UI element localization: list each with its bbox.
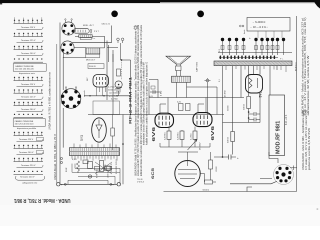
- tube A pin stubs: [97, 87, 106, 96]
- wire right of band: [112, 54, 114, 115]
- voltage selector row 11: [14, 158, 44, 168]
- wire aux rail x56.8: [56, 44, 58, 184]
- svg-text:0,1 MΩ: 0,1 MΩ: [191, 133, 193, 140]
- top rail of tubes: [88, 114, 224, 116]
- ladder component b: [107, 166, 112, 170]
- junction dots right: [248, 111, 250, 113]
- voltage selector legend box 2: [13, 119, 45, 131]
- svg-text:Tensione 110 V: Tensione 110 V: [21, 27, 36, 29]
- svg-text:5Y3: 5Y3: [259, 91, 263, 97]
- svg-text:UNDA - Modd. R 78/1, R 98/1: UNDA - Modd. R 78/1, R 98/1: [14, 197, 71, 203]
- power transformer winding band: [70, 144, 120, 156]
- punch hole left: [111, 11, 118, 18]
- svg-text:0,1 MΩ: 0,1 MΩ: [108, 87, 115, 89]
- svg-text:28.000x*: 28.000x*: [199, 142, 201, 150]
- wires tubes to resistors: [169, 127, 195, 147]
- ladder junctions: [220, 56, 275, 59]
- mains terminal left: [57, 183, 67, 187]
- svg-text:4 MΩ: 4 MΩ: [161, 90, 163, 96]
- cathode resistor Rk2: [178, 131, 184, 140]
- tube socket SK2 (top view): [61, 41, 74, 54]
- wire speaker legs: [177, 71, 187, 98]
- terminal block label box: [88, 64, 104, 69]
- pot arrow: [188, 140, 198, 151]
- voltage selector row 1 (110 V): [14, 17, 44, 29]
- svg-text:0,25 MΩ: 0,25 MΩ: [165, 132, 167, 140]
- right block label box: [247, 18, 290, 32]
- svg-text:MOD 45 T: MOD 45 T: [86, 59, 96, 61]
- top black border bar: [0, 0, 320, 3]
- wire hv: [223, 93, 261, 123]
- rewire ladder h2: [72, 164, 120, 185]
- svg-text:RF 2-3 RM 78/1: RF 2-3 RM 78/1: [129, 77, 133, 124]
- svg-text:fusib.: fusib.: [244, 29, 246, 34]
- wire tube V5 top: [178, 152, 198, 161]
- grid resistor R10: [203, 180, 213, 191]
- wire rail bottom segment: [62, 108, 64, 148]
- svg-text:Tensione 140 V: Tensione 140 V: [19, 152, 34, 154]
- svg-text:500 Ω: 500 Ω: [228, 137, 230, 143]
- wire V5 right: [200, 152, 216, 182]
- svg-text:Tensione 220 V: Tensione 220 V: [21, 165, 36, 167]
- octal socket SK3: [61, 87, 86, 109]
- output transformer primaries: [187, 78, 218, 115]
- junction mid: [121, 59, 122, 60]
- svg-text:+ ↓: + ↓: [280, 57, 284, 60]
- wire pickup dashed: [121, 60, 123, 80]
- svg-text:Tensione 110 V: Tensione 110 V: [21, 84, 36, 86]
- svg-text:UNDA RADIO - Modd. e alimentaz: UNDA RADIO - Modd. e alimentazione anodi…: [301, 17, 304, 116]
- cathode resistor Rk3: [191, 131, 197, 140]
- plate resistor R11: [209, 160, 218, 172]
- left schematic caption column: [134, 24, 148, 176]
- svg-text:← 48 — Ω Z Ω ○: ← 48 — Ω Z Ω ○: [250, 26, 268, 29]
- smoothing caps right: [249, 112, 260, 122]
- svg-text:2 Ω: 2 Ω: [219, 48, 221, 52]
- top-right page edge mark: [314, 0, 320, 9]
- junction tube rail: [130, 114, 131, 115]
- interstage wires: [160, 143, 210, 147]
- wire y79.5: [149, 80, 158, 98]
- svg-text:110 125 140 160 220: 110 125 140 160 220: [15, 69, 35, 71]
- selector bottom bracket: [16, 176, 45, 180]
- ladder component a: [95, 166, 100, 170]
- output socket SK4 (octal): [274, 165, 298, 185]
- page edge notch: [0, 3, 2, 4]
- svg-text:→ N-4000 Ω: → N-4000 Ω: [252, 21, 266, 24]
- wire y42.7: [72, 26, 112, 43]
- svg-text:3000 Ω: 3000 Ω: [89, 66, 96, 68]
- wire bus y95.8: [84, 95, 131, 96]
- tube V2 (5Y3 left) envelope: [92, 118, 107, 142]
- svg-text:6C5: 6C5: [150, 167, 155, 179]
- svg-text:0,25 MΩ: 0,25 MΩ: [178, 132, 180, 140]
- svg-text:CAP 7000: CAP 7000: [196, 61, 199, 72]
- svg-text:5Y3: 5Y3: [80, 135, 84, 141]
- wire centre drop: [122, 115, 124, 185]
- rewire ladder h3: [78, 176, 115, 184]
- wire pickup down: [120, 43, 121, 60]
- wire socket to coil: [64, 36, 87, 57]
- wires to output socket: [230, 152, 278, 192]
- rewire ladder h4: [68, 180, 108, 184]
- svg-text:CAMBIO TENSIONE: CAMBIO TENSIONE: [15, 120, 34, 123]
- voltage selector row 10: [14, 145, 44, 155]
- dropping resistor 300ohm: [243, 97, 250, 111]
- terminal strip: [219, 56, 284, 61]
- svg-text:+: +: [249, 36, 251, 40]
- svg-text:+: +: [237, 156, 239, 160]
- svg-text:8 MF: 8 MF: [66, 167, 68, 172]
- switch contacts: [60, 157, 62, 163]
- svg-text:50000 Ω: 50000 Ω: [108, 89, 116, 91]
- chassis hatched bar: [214, 61, 292, 66]
- svg-text:530 m 21: 530 m 21: [102, 23, 111, 25]
- voltage selector row 7: [14, 102, 44, 112]
- right block left rail: [222, 66, 224, 157]
- schematic frame bottom: [164, 191, 297, 193]
- svg-text:6 V usato; 6V6, 40 V pl. e 125: 6 V usato; 6V6, 40 V pl. e 125 V cd. pot…: [305, 109, 308, 170]
- collector rail: [218, 52, 292, 54]
- svg-text:UNDA Modd. R 78/1 e R 98/1 c: UNDA Modd. R 78/1 e R 98/1 cambio tensio…: [49, 71, 52, 130]
- junction dot rail: [222, 156, 224, 158]
- resistor R-heater: [76, 161, 79, 173]
- pickup terminal B: [121, 38, 124, 43]
- small cathode parts: [149, 86, 160, 98]
- svg-text:MOD.RF 98/1: MOD.RF 98/1: [276, 121, 282, 154]
- phase splitter box: [93, 101, 120, 115]
- screen resistor 500ohm: [228, 132, 235, 144]
- left schematic left rail: [59, 23, 61, 185]
- svg-text:collegamenti rete: collegamenti rete: [22, 181, 38, 184]
- rewire ladder h1: [75, 164, 120, 169]
- small rect parts: [83, 160, 110, 171]
- wire resistor down: [232, 142, 234, 155]
- right block verticals: [233, 66, 278, 132]
- svg-text:Tensione 220 V: Tensione 220 V: [20, 177, 35, 179]
- IF transformer body: [74, 29, 93, 34]
- svg-text:45 MΩ: 45 MΩ: [225, 90, 227, 97]
- cap stack: [116, 87, 121, 96]
- transformer terminals: [72, 156, 117, 161]
- output tube V3 (6V6): [155, 113, 174, 127]
- MOD RF 98/1 label box: [269, 95, 285, 156]
- svg-text:disposizione serie: disposizione serie: [19, 73, 36, 75]
- svg-text:5000 Ω: 5000 Ω: [203, 189, 210, 191]
- label near bus: [108, 87, 116, 92]
- filter capacitor bank 1: [221, 38, 245, 55]
- cathode resistor Rk1: [165, 131, 171, 140]
- capacitor block C-filter: [88, 162, 93, 179]
- svg-text:10000: 10000: [216, 166, 218, 172]
- svg-text:8 Ω + Ω 4: 8 Ω + Ω 4: [285, 114, 288, 125]
- punch hole right: [197, 11, 204, 18]
- tube V5 (6C5) envelope: [175, 161, 200, 187]
- voltage selector row 9: [14, 132, 44, 142]
- svg-text:P 4 T: P 4 T: [94, 31, 99, 33]
- svg-text:alimentazione 42 W; uscita 4,5: alimentazione 42 W; uscita 4,5 W: [307, 54, 310, 115]
- mains terminal right: [110, 183, 121, 187]
- svg-text:1000 Ω: 1000 Ω: [108, 171, 110, 178]
- main horizontal rail: [149, 97, 244, 99]
- tube V1 (6K7) envelope: [87, 75, 108, 88]
- svg-text:Tensione 140 V: Tensione 140 V: [21, 53, 36, 55]
- loudspeaker cone: [166, 56, 191, 70]
- voltage selector row 5: [14, 77, 44, 87]
- filter capacitor bank 2: [254, 38, 285, 55]
- output tube V4 (6V6): [193, 113, 212, 127]
- svg-text:300 Ω: 300 Ω: [243, 104, 245, 110]
- svg-text:CAMBIO TENSIONE: CAMBIO TENSIONE: [15, 65, 34, 68]
- svg-text:f.o.: f.o.: [93, 38, 96, 40]
- bottom chassis wire: [60, 183, 117, 185]
- tube socket SK1 (top view): [62, 19, 75, 35]
- wire mid vertical: [130, 60, 132, 115]
- voltage selector row 4 (160 V): [14, 58, 44, 62]
- svg-text:pres. fono: pres. fono: [109, 96, 119, 98]
- right margin caption upper: [301, 17, 310, 116]
- svg-text:ATA 55,5: ATA 55,5: [295, 62, 298, 71]
- voltage selector row 12: [14, 171, 44, 179]
- svg-text:6,3 V: 6,3 V: [72, 159, 77, 161]
- svg-text:zoccolo: zoccolo: [84, 89, 86, 97]
- chassis comb stubs: [226, 66, 286, 72]
- schematic frame right edge: [296, 16, 298, 192]
- svg-text:vol. 50000 Ω: vol. 50000 Ω: [109, 93, 121, 95]
- svg-text:Tensione 110 V: Tensione 110 V: [19, 139, 34, 141]
- crossing wires: [95, 162, 112, 174]
- IF coil L2: [86, 48, 100, 62]
- label 750ohm stack: [137, 179, 145, 184]
- svg-text:Tensione 125 V: Tensione 125 V: [21, 40, 36, 42]
- svg-text:UNDA RADIO - Mod. R 98/1 - Amp: UNDA RADIO - Mod. R 98/1 - Amplificatore…: [302, 109, 305, 170]
- voltage selector row 2 (125 V): [14, 33, 44, 43]
- svg-text:30000: 30000: [227, 105, 229, 111]
- wire top loop: [92, 36, 113, 62]
- output electrolytic: [214, 155, 239, 160]
- svg-text:0,1 MΩF 220 V: 0,1 MΩF 220 V: [116, 159, 118, 174]
- wire left drop: [148, 82, 150, 115]
- svg-text:potenza uscita 4,5 W 6V6: potenza uscita 4,5 W 6V6: [308, 127, 311, 170]
- volume potentiometer P1: [115, 81, 122, 89]
- pickup terminal A: [117, 38, 120, 43]
- terminal circles pair: [239, 25, 244, 27]
- svg-text:0,1 MΩ: 0,1 MΩ: [111, 99, 118, 101]
- speaker field coil: [172, 76, 191, 82]
- coupling caps between tubes: [177, 102, 190, 111]
- svg-text:6V6: 6V6: [151, 126, 157, 141]
- stray mark bottom right: [317, 208, 319, 211]
- tube V6 (5Y3 right) envelope: [246, 75, 263, 94]
- svg-text:1 W 6,3: 1 W 6,3: [137, 182, 145, 184]
- svg-text:Tensione 125 V: Tensione 125 V: [21, 97, 36, 99]
- voltage selector legend box 1: [13, 64, 46, 76]
- svg-text:6V6 cd. - 24 V piastra; (Tubes: 6V6 cd. - 24 V piastra; (Tubes usati 6C5…: [304, 17, 307, 115]
- wire input left: [107, 41, 118, 101]
- svg-text:6V6: 6V6: [210, 125, 216, 140]
- svg-text:fusibile sul primario; cambio: fusibile sul primario; cambio tensione a…: [146, 62, 149, 145]
- svg-text:MOD. 45 T: MOD. 45 T: [83, 25, 94, 27]
- stubs box to caps: [258, 31, 282, 38]
- filter labels cluster: [66, 159, 110, 178]
- voltage selector row 8: [14, 114, 44, 118]
- right margin caption lower: [302, 109, 311, 170]
- svg-text:Tensione 160 V: Tensione 160 V: [21, 109, 36, 111]
- voltage selector row 6: [14, 89, 44, 99]
- left rail second wire: [62, 57, 64, 90]
- svg-text:50000 Ω: 50000 Ω: [111, 163, 113, 172]
- grid leak resistor: [111, 115, 115, 151]
- IF coil L1: [79, 35, 96, 41]
- junction centre drop: [122, 143, 124, 145]
- input coupling component: [117, 69, 121, 76]
- svg-text:disposizione parallelo: disposizione parallelo: [17, 128, 37, 130]
- svg-text:110 125 140 160 220: 110 125 140 160 220: [15, 124, 35, 126]
- wire mid top: [122, 59, 131, 61]
- voltage selector row 3 (140 V): [14, 46, 44, 56]
- tube pin stubs: [160, 98, 206, 114]
- resistor R-bleeder: [100, 161, 108, 172]
